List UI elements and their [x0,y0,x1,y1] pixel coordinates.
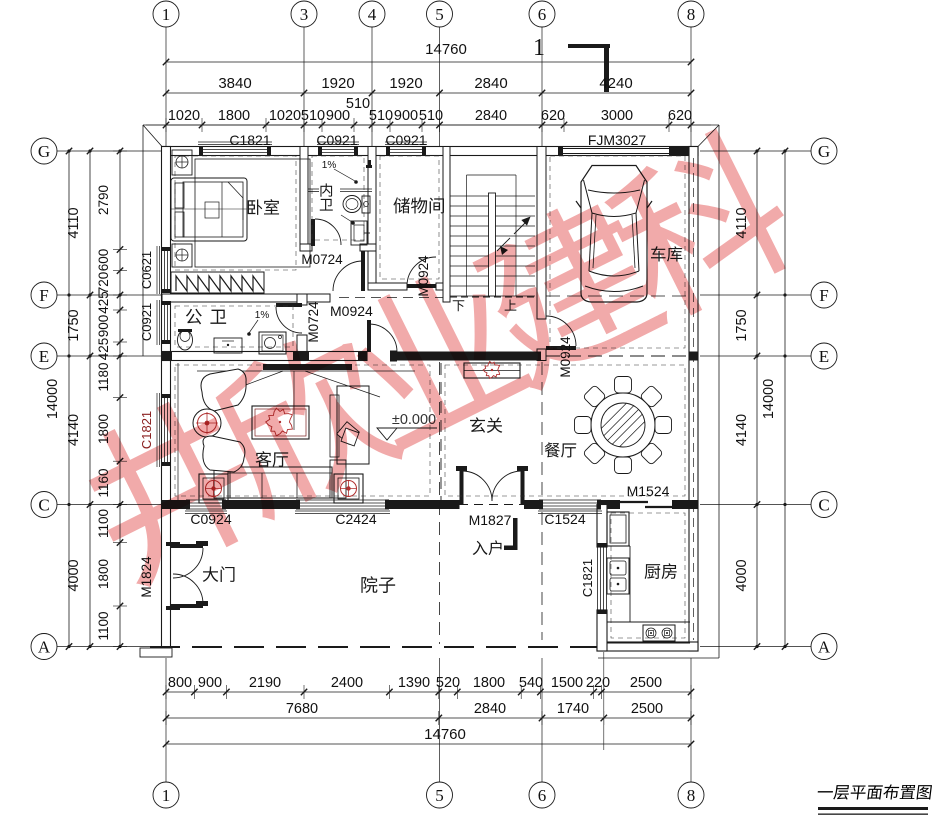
svg-text:A: A [818,638,831,657]
label up [505,299,517,310]
svg-text:1%: 1% [255,310,270,321]
window C0924 living south [190,499,222,501]
drawing title [817,784,932,799]
living room finish line [177,363,179,500]
bed [171,178,247,241]
svg-text:FJM3027: FJM3027 [588,132,647,148]
round side table [193,409,221,437]
svg-text:M0924: M0924 [330,303,373,319]
svg-text:3840: 3840 [218,75,251,92]
red watermark [68,119,805,593]
svg-text:425: 425 [96,291,111,314]
door M0724 inner bath west leaf [311,219,315,246]
bottom dimension row overall 14760 [166,743,691,745]
sofa [228,467,332,498]
armchair right [337,386,369,464]
grid8 axis dashed inside right wall [693,158,695,640]
car in garage [576,166,652,303]
kitchen bottom exterior wall (A row) [597,642,698,651]
label public bath [186,309,226,325]
label bedroom [248,199,279,215]
dining table [591,393,655,457]
door M0924 storage [407,284,436,288]
svg-text:540: 540 [519,675,543,691]
svg-text:C0621: C0621 [139,251,154,289]
svg-text:2790: 2790 [96,185,111,215]
label courtyard [361,576,395,593]
label kitchen [645,563,677,579]
E row wall segment mid (door jambs) [395,352,541,361]
svg-text:220: 220 [586,675,610,691]
stairs direction arrow [497,238,510,251]
svg-text:520: 520 [436,675,460,691]
E row wall segment west [162,352,367,361]
svg-text:510: 510 [346,96,370,112]
C row wall segments [162,500,190,509]
exterior wall left [162,147,171,652]
shoe cabinet [464,363,520,378]
svg-text:4000: 4000 [734,559,750,591]
door M0724 inner bath [361,251,365,291]
window C1821 kitchen west [597,547,599,610]
left dimension column detail [119,151,121,647]
svg-text:C1821: C1821 [229,132,270,148]
kitchen sink [607,558,629,594]
svg-text:1: 1 [533,35,545,61]
window C0921 storage top [390,146,422,148]
kitchen left wall [597,505,607,548]
door M0924 corridor to foyer [367,320,371,352]
svg-text:8: 8 [687,5,696,24]
public bath right wall [297,294,307,305]
svg-text:1740: 1740 [557,701,589,717]
svg-text:14760: 14760 [425,41,467,58]
public bath washing machine [259,332,286,354]
svg-text:7680: 7680 [286,701,318,717]
fan chair lower [203,436,245,472]
grid5 dashed axis through courtyard [439,362,441,644]
svg-text:1800: 1800 [218,108,250,124]
sliding door M1524 kitchen [619,501,648,503]
svg-text:1500: 1500 [551,675,583,691]
exterior wall right [689,147,698,652]
svg-text:600: 600 [96,249,111,272]
svg-text:1920: 1920 [389,75,422,92]
double gate M1824 [171,544,203,548]
right dimension column bays [756,151,758,647]
label dining [545,442,577,457]
svg-text:1100: 1100 [96,611,111,640]
window C0621 left (bedroom) [161,251,163,289]
svg-text:C1821: C1821 [139,411,154,449]
label gate [203,566,235,582]
living decor diagonals [211,371,283,398]
svg-text:5: 5 [435,786,444,805]
svg-text:G: G [818,142,830,161]
svg-text:3000: 3000 [601,108,633,124]
svg-text:720: 720 [96,272,111,295]
public bath toilet [178,330,193,350]
window C1821 bedroom top [203,146,267,148]
kitchen stove [643,625,675,641]
label down [453,300,465,311]
right dimension overall 14000 [784,151,786,647]
svg-text:C: C [818,496,829,515]
svg-text:M0724: M0724 [306,301,321,343]
M1827 threshold dashed [459,504,524,506]
svg-text:4110: 4110 [66,207,82,238]
door M0924 garage to foyer [546,346,576,350]
courtyard bottom wall dashed [150,646,600,648]
level mark 0.000 [377,427,437,429]
svg-text:C1524: C1524 [544,511,585,527]
svg-text:510: 510 [419,108,443,124]
garage left wall (grid6) [537,147,546,320]
garage door FJM3027 [563,148,669,150]
svg-text:C0921: C0921 [139,303,154,341]
door M0724 public bath [276,303,302,307]
svg-text:C: C [38,496,49,515]
svg-text:1: 1 [162,786,171,805]
sofa side table right with red marker [334,474,363,503]
svg-text:14000: 14000 [45,379,61,419]
F row wall (public bath top) [162,294,330,302]
svg-text:F: F [819,286,828,305]
svg-text:900: 900 [394,108,418,124]
svg-text:800: 800 [168,675,192,691]
coffee table plant [266,408,293,436]
top dimension row overall 14760 [166,61,691,63]
svg-text:1800: 1800 [96,559,111,589]
label living [256,451,289,467]
entry section mark [513,518,518,550]
living/foyer divider dashed line [440,363,442,500]
top dimension row bays [166,92,691,94]
svg-text:1750: 1750 [66,309,82,341]
inner bath toilet [343,196,361,213]
label inner bath [320,183,333,210]
eaves overhang outline [143,124,719,126]
svg-text:620: 620 [541,108,565,124]
TV [263,364,352,370]
svg-text:1020: 1020 [269,108,301,124]
svg-text:M0724: M0724 [301,252,343,267]
svg-text:4240: 4240 [599,75,632,92]
svg-text:14760: 14760 [424,726,466,743]
window C0921 left (public bath) [161,305,163,340]
svg-text:4: 4 [368,5,377,24]
svg-text:C0921: C0921 [316,132,357,148]
left dimension overall 14000 [68,151,70,647]
double door M1827 entry [460,470,464,504]
svg-text:2840: 2840 [474,701,506,717]
label foyer [470,417,502,433]
label storage [393,197,444,213]
svg-text:4140: 4140 [734,414,750,446]
svg-text:2500: 2500 [631,701,663,717]
svg-text:900: 900 [198,675,222,691]
svg-text:4000: 4000 [66,559,82,591]
E row garage south dashed line [546,355,698,357]
svg-text:C2424: C2424 [335,511,376,527]
svg-text:1020: 1020 [168,108,200,124]
grid axis circles top [153,1,179,27]
svg-text:2840: 2840 [475,108,507,124]
svg-text:425: 425 [96,338,111,361]
storage bottom wall [368,283,407,290]
label entry [473,540,502,555]
kitchen counter [629,546,631,622]
svg-text:4140: 4140 [66,414,82,446]
bottom dimension row mid [166,717,691,719]
label garage [651,246,682,261]
coffee table [252,406,309,439]
F row beam dashed [339,297,443,299]
grid6 dashed axis through dining/courtyard [541,362,543,497]
svg-text:510: 510 [301,108,325,124]
grid axis circles left [31,138,57,164]
grid axis circles bottom [153,782,179,808]
inner bath shower head [366,165,372,168]
window C1821 left (living) [161,398,163,462]
courtyard bottom-left footing [140,648,172,657]
stairs landing [466,175,468,196]
garage F axis dashed [546,295,689,297]
svg-text:M1827: M1827 [469,512,512,528]
inner bath bottom wall [300,244,312,251]
inner bath partition [308,188,319,190]
window C1524 foyer south [543,499,597,501]
bedroom rug [195,159,310,267]
grid axis circles right [811,138,837,164]
svg-text:6: 6 [538,786,547,805]
fan chair upper [201,369,246,411]
svg-text:G: G [38,142,50,161]
svg-text:E: E [819,347,829,366]
svg-text:1390: 1390 [398,675,430,691]
window C0921 innerbath top [322,146,354,148]
sofa side table left with red marker [199,474,228,503]
svg-text:620: 620 [668,108,692,124]
svg-text:14000: 14000 [761,379,777,419]
kitchen top wall [597,500,620,509]
svg-text:1750: 1750 [734,309,750,341]
svg-text:2500: 2500 [630,675,662,691]
interior wall grid4 (innerbath / storage divider) [368,147,376,291]
svg-text:A: A [38,638,51,657]
stairs treads [450,195,535,197]
exterior wall top (G row) [162,147,698,156]
svg-text:C0921: C0921 [385,132,426,148]
svg-text:900: 900 [96,315,111,338]
svg-text:1180: 1180 [96,362,111,391]
stairwell left wall [443,147,450,303]
svg-text:8: 8 [687,786,696,805]
svg-text:3: 3 [300,5,309,24]
svg-text:E: E [39,347,49,366]
inner bath basin [351,221,367,245]
public bath vanity [214,338,242,353]
interior wall grid3 (bedroom / innerbath divider) [300,147,308,252]
nightstand bottom [172,244,192,267]
svg-text:F: F [39,286,48,305]
svg-text:2840: 2840 [474,75,507,92]
svg-text:1920: 1920 [321,75,354,92]
dining chairs [615,377,632,394]
svg-text:1: 1 [162,5,171,24]
svg-text:1800: 1800 [473,675,505,691]
svg-text:1100: 1100 [96,509,111,538]
left dimension column bays [89,151,91,647]
kitchen fridge [607,512,629,546]
svg-text:6: 6 [538,5,547,24]
svg-text:2190: 2190 [249,675,281,691]
wardrobe [171,272,264,293]
stairs center rail [489,193,496,296]
svg-text:510: 510 [369,108,393,124]
window C2424 living south [300,499,385,501]
room finish dashed outlines [175,156,296,270]
svg-text:C1821: C1821 [580,559,595,597]
svg-text:M1524: M1524 [627,483,670,499]
svg-text:5: 5 [435,5,444,24]
svg-text:2400: 2400 [331,675,363,691]
top dimension row detail [166,124,691,126]
stairs cut dashed line [450,296,535,298]
nightstand top [172,150,192,175]
bottom dimension row detail [166,691,691,693]
